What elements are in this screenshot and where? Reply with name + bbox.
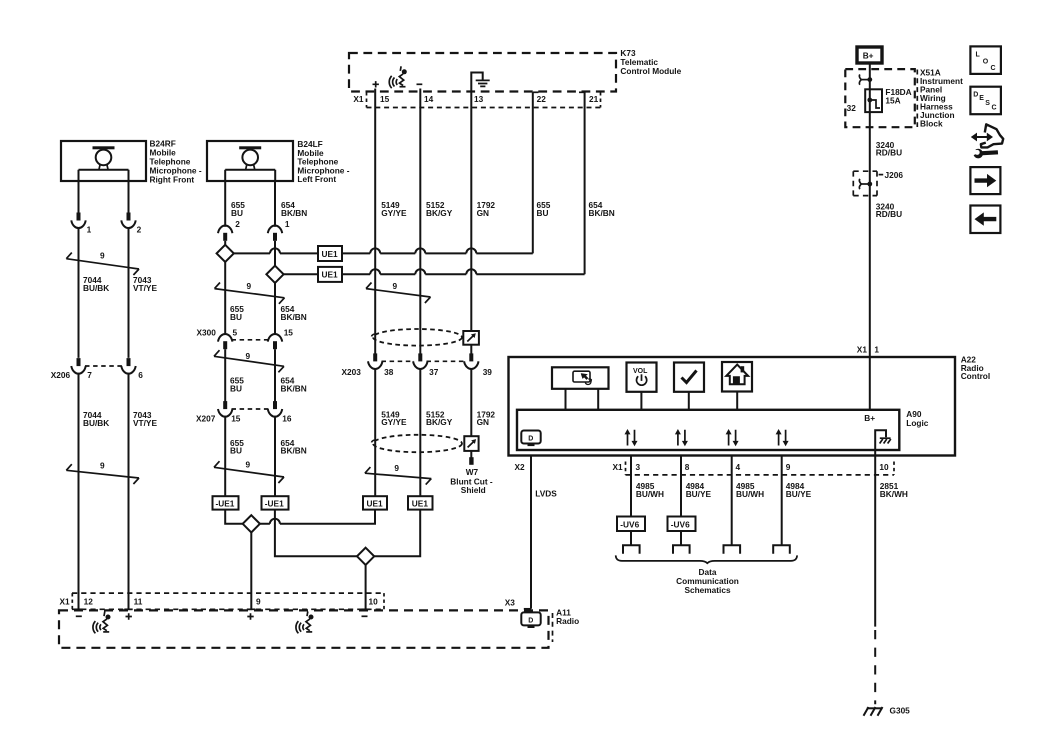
A90 logic box xyxy=(517,410,899,450)
svg-text:C: C xyxy=(992,105,997,112)
wire splice S4 to radio pin 10 xyxy=(365,565,367,609)
svg-text:C: C xyxy=(991,65,996,72)
checkmark icon box xyxy=(674,363,704,392)
connector X300 pin 15 xyxy=(268,334,282,349)
svg-text:BU/WH: BU/WH xyxy=(736,489,764,499)
wire 655 BU X300 to X207 xyxy=(224,349,226,401)
svg-text:-UE1: -UE1 xyxy=(216,498,235,508)
svg-text:E: E xyxy=(979,95,984,102)
connector X206 pin 7 xyxy=(71,358,85,374)
svg-text:1: 1 xyxy=(87,225,92,235)
svg-text:9: 9 xyxy=(256,596,261,606)
wire 1792 below X203 xyxy=(470,368,472,436)
label 5152 BK/GY lower xyxy=(426,409,453,427)
svg-text:BK/BN: BK/BN xyxy=(589,208,615,218)
wire 654 BK/BN X300 to X207 xyxy=(274,349,276,401)
hop over 1792 wire xyxy=(466,248,476,253)
label 7044 BU/BK xyxy=(83,275,109,293)
label J206 xyxy=(879,170,904,180)
shield drain box lower xyxy=(464,436,478,451)
minus symbol pin 12 xyxy=(76,615,82,617)
wire 655 BU splice to X300 xyxy=(224,262,226,335)
module A11 Radio dashed box xyxy=(59,610,549,647)
splice pack UE1 (upper second) xyxy=(318,267,342,282)
svg-text:Schematics: Schematics xyxy=(684,585,731,595)
svg-text:13: 13 xyxy=(474,94,484,104)
svg-text:BK/BN: BK/BN xyxy=(281,446,307,456)
svg-text:BU: BU xyxy=(230,383,242,393)
label F18DA 15A xyxy=(885,87,911,105)
svg-text:O: O xyxy=(983,59,989,66)
hop over 5152 wire xyxy=(415,248,425,253)
svg-text:-UV6: -UV6 xyxy=(671,519,690,529)
wire K73 pin 21 (654 BK/BN) xyxy=(579,92,585,274)
splice diamond S2 xyxy=(266,266,283,283)
staple terminator 2 xyxy=(673,545,690,554)
minus symbol (mic -) xyxy=(417,83,423,85)
svg-text:8: 8 xyxy=(685,462,690,472)
svg-text:Block: Block xyxy=(920,118,943,128)
svg-text:X1: X1 xyxy=(60,596,71,606)
svg-text:9: 9 xyxy=(246,351,251,361)
label 655 BU xyxy=(230,304,244,322)
svg-text:BU: BU xyxy=(231,208,243,218)
wire K73 pin 13 shield drain (1792 GN) xyxy=(470,93,472,355)
staple terminator 3 xyxy=(724,545,741,554)
label 4984 BU/YE xyxy=(686,481,712,499)
staple terminator 4 xyxy=(773,545,790,554)
svg-text:Control Module: Control Module xyxy=(620,66,681,76)
svg-text:X3: X3 xyxy=(505,598,516,608)
svg-text:X300: X300 xyxy=(197,327,217,337)
plus symbol (mic +) xyxy=(373,81,379,87)
wire -UE1 655 to splice S3 xyxy=(225,510,243,524)
wire pin 9 (4984 BU/YE) xyxy=(781,456,783,546)
svg-text:10: 10 xyxy=(879,462,889,472)
svg-text:9: 9 xyxy=(786,462,791,472)
wire B24RF pin1 drop xyxy=(78,181,80,213)
connector X203 pin 37 xyxy=(413,353,427,369)
svg-text:15: 15 xyxy=(380,94,390,104)
svg-text:UE1: UE1 xyxy=(322,249,339,259)
connector B24RF pin 1 xyxy=(71,213,85,229)
svg-text:Radio: Radio xyxy=(556,616,579,626)
twisted pair symbol 9 xyxy=(214,460,284,484)
mic icon inside K73 xyxy=(389,66,407,88)
label 7044 BU/BK xyxy=(83,410,109,428)
label 4985 BU/WH xyxy=(636,481,664,499)
wire horizontal splice S2 to pin21 wire (y 274.3) xyxy=(284,273,585,275)
svg-text:BU: BU xyxy=(537,208,549,218)
wire K73 pin 22 (655 BU) xyxy=(533,92,539,253)
svg-text:3: 3 xyxy=(636,462,641,472)
DESC legend box xyxy=(970,87,1001,115)
svg-text:-UV6: -UV6 xyxy=(620,519,639,529)
mic icon right xyxy=(296,612,314,634)
shield drain box upper xyxy=(463,331,479,345)
label 3240 RD/BU upper xyxy=(876,140,902,158)
touch screen icon box xyxy=(552,367,609,389)
twisted pair symbol 9 xyxy=(66,250,139,275)
twisted pair symbol 9 xyxy=(66,460,139,484)
module X51A dashed box xyxy=(845,69,915,127)
label 654 BK/BN xyxy=(281,376,307,394)
svg-text:15: 15 xyxy=(231,414,241,424)
svg-text:BK/GY: BK/GY xyxy=(426,208,453,218)
hop over 5152 wire xyxy=(415,269,425,274)
twisted pair symbol 9 (5149/5152 lower) xyxy=(365,463,431,485)
label A90 Logic xyxy=(906,409,929,428)
radio pin 12 wire foot xyxy=(74,608,82,610)
splice pack UE1 (5149) xyxy=(363,496,387,509)
arrow left legend box xyxy=(970,206,1000,234)
wire pin1 down through hop to splice S2 xyxy=(274,241,276,266)
svg-text:BU/WH: BU/WH xyxy=(636,489,664,499)
wire K73 pin 14 (5152 BK/GY) xyxy=(419,89,421,355)
component B24RF Mobile Telephone Microphone - Right Front xyxy=(61,141,146,181)
wire 5149 below X203 xyxy=(374,368,376,496)
data arrows 1 xyxy=(625,429,638,446)
D display icon A90 xyxy=(521,431,540,447)
svg-text:Control: Control xyxy=(961,371,991,381)
svg-text:BK/WH: BK/WH xyxy=(880,489,908,499)
svg-text:VOL: VOL xyxy=(633,368,648,375)
data arrows 2 xyxy=(675,429,688,446)
svg-text:16: 16 xyxy=(282,414,292,424)
splice diamond S3 xyxy=(243,515,260,532)
svg-text:GN: GN xyxy=(477,208,489,218)
svg-text:2: 2 xyxy=(137,225,142,235)
svg-text:9: 9 xyxy=(393,281,398,291)
svg-text:32: 32 xyxy=(847,103,857,113)
radio pin 9 wire foot xyxy=(247,608,255,610)
splice pack -UV6 first xyxy=(617,517,645,532)
svg-text:GN: GN xyxy=(477,417,489,427)
label X1 pin 1 at top xyxy=(857,344,880,354)
label W7 Blunt Cut - Shield xyxy=(450,467,493,495)
wire splice S3 to radio pin 9 xyxy=(250,532,252,609)
mic icon left xyxy=(93,612,111,634)
svg-text:1: 1 xyxy=(874,344,879,354)
connector X206 pin 6 xyxy=(121,358,135,374)
svg-text:RD/BU: RD/BU xyxy=(876,148,902,158)
svg-text:11: 11 xyxy=(134,596,143,606)
svg-text:9: 9 xyxy=(394,463,399,473)
wire W7 blunt cut stub xyxy=(470,451,472,458)
wires touch box to logic xyxy=(566,389,599,409)
svg-text:14: 14 xyxy=(424,94,434,104)
svg-text:GY/YE: GY/YE xyxy=(381,417,407,427)
plus symbol pin 11 xyxy=(126,613,132,619)
svg-text:VT/YE: VT/YE xyxy=(133,283,157,293)
svg-text:9: 9 xyxy=(100,460,105,470)
svg-text:9: 9 xyxy=(247,281,252,291)
wire pin 4 (4985 BU/WH) xyxy=(731,456,733,546)
wire 7044 BU/BK lower xyxy=(78,373,80,609)
W7 blunt cut terminal bar xyxy=(469,457,473,465)
svg-text:UE1: UE1 xyxy=(367,498,384,508)
svg-text:15A: 15A xyxy=(885,95,900,105)
wire 7043 VT/YE lower xyxy=(128,373,130,609)
wire pin 3 (4985 BU/WH) xyxy=(630,456,632,517)
svg-text:J206: J206 xyxy=(885,170,904,180)
svg-text:38: 38 xyxy=(384,367,394,377)
label 654 BK/BN xyxy=(281,438,307,456)
arrow right legend box xyxy=(970,167,1000,194)
label 1792 GN lower xyxy=(477,409,496,427)
label A11 Radio with separator dashes xyxy=(553,608,580,642)
svg-text:BK/BN: BK/BN xyxy=(281,383,307,393)
module K73 dashed box xyxy=(349,53,616,92)
label 654 BK/BN xyxy=(281,304,307,322)
label 655 BU xyxy=(230,438,244,456)
wire -UE1 654 down to splice S4 level xyxy=(275,510,357,557)
svg-text:S: S xyxy=(985,100,990,107)
svg-text:X1: X1 xyxy=(857,344,868,354)
splice pack -UV6 second xyxy=(668,517,696,532)
X300 mate dashed line xyxy=(232,339,269,341)
wire 654 BK/BN splice to X300 xyxy=(274,283,276,335)
twisted pair symbol 9 xyxy=(215,281,285,304)
svg-text:BU: BU xyxy=(230,446,242,456)
home icon box xyxy=(722,362,752,392)
svg-text:D: D xyxy=(528,435,533,442)
label 655 BU xyxy=(230,376,244,394)
wire pin 10 to ground solid part xyxy=(874,450,876,627)
wire home box to logic xyxy=(736,392,738,410)
svg-text:D: D xyxy=(973,91,978,98)
label 3240 RD/BU lower xyxy=(876,201,902,219)
svg-text:UE1: UE1 xyxy=(412,498,429,508)
data arrows 3 xyxy=(726,429,739,446)
wire -UV6 to staple 2 xyxy=(680,531,682,545)
wire B24LF pin2 drop xyxy=(224,181,226,227)
svg-text:22: 22 xyxy=(537,94,547,104)
svg-text:BK/BN: BK/BN xyxy=(281,312,307,322)
svg-text:B+: B+ xyxy=(864,413,875,423)
connector X207 pin 16 xyxy=(268,401,282,417)
wire LVDS X2 to X3 xyxy=(530,456,532,609)
svg-text:5: 5 xyxy=(233,327,238,337)
hop over 5149 wire xyxy=(370,269,380,274)
connector X203 pin 39 xyxy=(464,353,478,369)
connector B24RF pin 2 xyxy=(121,213,135,229)
connector X300 pin 5 xyxy=(218,334,232,349)
svg-text:9: 9 xyxy=(246,460,251,470)
wire pin 8 (4984 BU/YE) xyxy=(680,456,682,517)
label K73 xyxy=(620,48,681,76)
svg-text:21: 21 xyxy=(589,94,599,104)
ground G305 symbol xyxy=(864,707,883,716)
LOC legend box xyxy=(970,46,1001,74)
wire -UV6 to staple 1 xyxy=(630,531,632,545)
splice pack UE1 (5152) xyxy=(408,496,433,509)
svg-text:D: D xyxy=(528,617,533,624)
hop over 654 stem xyxy=(270,519,280,524)
svg-text:Shield: Shield xyxy=(461,485,486,495)
minus symbol pin 10 xyxy=(362,615,368,617)
splice diamond S1 xyxy=(217,245,234,262)
twisted pair symbol 9 xyxy=(214,350,284,372)
svg-text:Right Front: Right Front xyxy=(150,175,195,185)
svg-text:RD/BU: RD/BU xyxy=(876,209,902,219)
service tool icon xyxy=(971,124,1004,158)
svg-text:BU/BK: BU/BK xyxy=(83,283,109,293)
B+ symbol box xyxy=(857,47,882,63)
svg-text:BU/YE: BU/YE xyxy=(686,489,712,499)
A11 radio X1 pin row dashed xyxy=(72,593,384,609)
hop over 1792 wire xyxy=(466,269,476,274)
wire K73 pin 15 (5149 GY/YE) xyxy=(374,89,376,355)
svg-text:G305: G305 xyxy=(890,705,911,715)
svg-text:1: 1 xyxy=(285,219,290,229)
wire 5152 below X203 xyxy=(419,368,421,496)
svg-text:BK/BN: BK/BN xyxy=(281,208,307,218)
label 5152 BK/GY xyxy=(426,200,453,218)
wire B+ down to A22 xyxy=(869,63,871,357)
svg-text:9: 9 xyxy=(100,250,105,260)
internal ground hook xyxy=(875,430,891,450)
connector X203 pin 38 xyxy=(368,353,382,369)
wire B24RF pin2 drop xyxy=(128,181,130,213)
wire splice S4 to UE1 5152 xyxy=(374,510,420,557)
shield ellipse lower xyxy=(372,435,462,452)
label 4984 BU/YE xyxy=(786,481,812,499)
wire X3 foot xyxy=(524,608,531,610)
svg-text:VT/YE: VT/YE xyxy=(133,418,157,428)
svg-text:Left Front: Left Front xyxy=(297,174,336,184)
X206 mate dashed line xyxy=(85,365,122,367)
ground symbol at pin 13 xyxy=(471,73,489,94)
radio pin 10 wire foot xyxy=(361,608,369,610)
label 5149 GY/YE lower xyxy=(381,409,407,427)
wire VOL box to logic xyxy=(640,392,642,409)
connector X207 pin 15 xyxy=(218,401,232,417)
svg-text:4: 4 xyxy=(736,462,741,472)
svg-text:LVDS: LVDS xyxy=(535,489,557,499)
plus symbol pin 9 xyxy=(247,613,253,619)
label 7043 VT/YE xyxy=(133,410,157,428)
svg-text:X207: X207 xyxy=(196,414,216,424)
wire B24LF pin1 drop xyxy=(274,181,276,227)
svg-text:X1: X1 xyxy=(353,94,364,104)
label B24RF xyxy=(150,139,202,185)
component B24LF Mobile Telephone Microphone - Left Front xyxy=(207,141,293,181)
svg-text:BU: BU xyxy=(230,312,242,322)
shield ellipse upper xyxy=(372,329,462,346)
splice pack UE1 (upper first) xyxy=(318,246,342,261)
splice pack -UE1 (655) xyxy=(213,496,239,509)
svg-text:B+: B+ xyxy=(863,51,874,61)
wire pin 10 dashed part xyxy=(874,630,876,704)
svg-text:15: 15 xyxy=(284,327,294,337)
VOL power icon box xyxy=(627,363,657,392)
svg-text:37: 37 xyxy=(429,367,439,377)
svg-text:2: 2 xyxy=(235,219,240,229)
label 4985 BU/WH xyxy=(736,481,764,499)
data arrows 4 xyxy=(776,429,789,446)
label A22 Radio Control xyxy=(961,354,991,381)
D display icon A11 xyxy=(521,612,540,628)
wire 7043 VT/YE upper xyxy=(128,227,130,358)
twisted pair symbol 9 (5149/5152) xyxy=(366,281,431,303)
wire 654 BK/BN X207 to -UE1 xyxy=(274,416,276,496)
wire 7044 BU/BK upper xyxy=(78,227,80,358)
label 655 BU (pin22 wire) xyxy=(537,200,551,218)
svg-text:X2: X2 xyxy=(515,462,526,472)
hop over 654 wire xyxy=(270,248,280,253)
svg-text:L: L xyxy=(976,52,981,59)
svg-text:UE1: UE1 xyxy=(322,270,339,280)
wire horizontal splice S1 to pin22 wire (y 253.4) xyxy=(234,252,533,254)
svg-text:12: 12 xyxy=(84,596,94,606)
wire splice S3 to UE1 5149 xyxy=(260,510,375,524)
svg-text:BU/BK: BU/BK xyxy=(83,418,109,428)
label 5149 GY/YE xyxy=(381,200,407,218)
svg-text:X203: X203 xyxy=(342,367,362,377)
A22 X1 pin row dashes xyxy=(626,462,895,476)
data communication brace xyxy=(616,555,797,563)
svg-text:BU/YE: BU/YE xyxy=(786,489,812,499)
label 654 BK/BN xyxy=(281,200,307,218)
inline harness connector J206 xyxy=(853,171,877,195)
svg-text:W7: W7 xyxy=(466,467,479,477)
terminal clip symbol xyxy=(859,74,872,84)
radio pin 11 wire foot xyxy=(124,608,132,610)
staple terminator 1 xyxy=(623,545,640,554)
hop over 5149 wire xyxy=(370,248,380,253)
svg-text:10: 10 xyxy=(369,596,379,606)
label 655 BU xyxy=(231,200,245,218)
label 654 BK/BN (pin21 wire) xyxy=(589,200,615,218)
wire pin2 to splice xyxy=(224,241,226,245)
label Data Communication Schematics xyxy=(676,567,739,595)
svg-text:X206: X206 xyxy=(51,370,71,380)
svg-text:39: 39 xyxy=(483,367,493,377)
K73 X1 pin row dashed xyxy=(367,92,601,108)
svg-text:X1: X1 xyxy=(613,462,624,472)
label 7043 VT/YE xyxy=(133,275,157,293)
splice diamond S4 xyxy=(357,548,374,565)
label 2851 BK/WH xyxy=(880,481,908,499)
svg-text:BK/GY: BK/GY xyxy=(426,417,453,427)
X207 mate dashed line xyxy=(232,408,269,410)
svg-text:Logic: Logic xyxy=(906,418,929,428)
splice pack -UE1 (654) xyxy=(262,496,289,509)
connector B24LF pin 2 xyxy=(218,226,232,241)
wire 655 BU X207 to -UE1 xyxy=(224,416,226,496)
connector B24LF pin 1 xyxy=(268,226,282,241)
svg-text:GY/YE: GY/YE xyxy=(381,208,407,218)
fuse F18DA 15A xyxy=(865,89,882,112)
wire B+ into logic xyxy=(869,357,871,410)
label X51A Instrument Panel Wiring Harness Junction Block xyxy=(917,67,963,128)
wire check box to logic xyxy=(688,392,690,409)
svg-text:7: 7 xyxy=(87,370,92,380)
label 1792 GN xyxy=(477,200,496,218)
module A22 box xyxy=(509,357,956,456)
label B24LF xyxy=(297,139,349,184)
svg-text:6: 6 xyxy=(138,370,143,380)
X203 mate dashed lines xyxy=(382,360,466,362)
svg-text:-UE1: -UE1 xyxy=(265,498,284,508)
